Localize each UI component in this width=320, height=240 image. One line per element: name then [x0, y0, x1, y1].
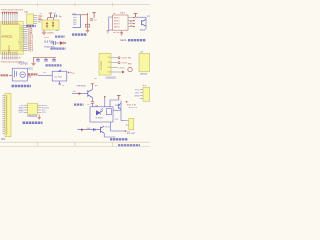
- display connector bracket: [73, 15, 81, 28]
- wire below reset box: [59, 81, 61, 83]
- VCC symbol above crystal: [49, 13, 52, 18]
- reset net label red: [28, 73, 38, 75]
- output header body: [129, 118, 134, 130]
- U1 right side pins: [23, 26, 27, 51]
- LED indicator label blue: [55, 35, 65, 37]
- caption relay circuit blue: [110, 138, 128, 140]
- diode on Q4 base wire: [81, 128, 84, 131]
- resistor network RP1 body: [2, 12, 17, 14]
- crystal circuit body: [42, 20, 59, 30]
- caption start circuit blue: [74, 103, 84, 105]
- svg-text:VCC: VCC: [28, 68, 33, 71]
- keypad right pins: [128, 18, 133, 27]
- diode terminal dot bottom: [125, 130, 127, 132]
- svg-text:P3.6: P3.6: [44, 37, 49, 39]
- U1 top pin stubs: [2, 22, 17, 25]
- wire cap to opto box: [91, 103, 93, 107]
- bottom zone tick 3: [112, 142, 114, 147]
- arrow at pin4: [122, 71, 125, 74]
- driver IC U2 body: [99, 53, 111, 75]
- pin end circle 1: [118, 57, 120, 59]
- LED terminal dot: [64, 42, 66, 44]
- caps caption blue: [46, 64, 62, 66]
- indicator wire left: [51, 42, 54, 44]
- header JP1 body: [5, 93, 11, 137]
- wire reset to switch: [38, 74, 52, 76]
- diode on Q2 base wire: [79, 92, 82, 95]
- U1 right-side pin names: [18, 25, 23, 52]
- svg-text:Uart1-: Uart1-: [120, 39, 127, 42]
- U3 left net labels blue: [19, 105, 24, 114]
- svg-text:XTAL2: XTAL2: [8, 45, 11, 53]
- svg-text:PNP8550: PNP8550: [77, 86, 87, 88]
- crystal symbol left: [46, 22, 48, 28]
- wire top mid of box: [104, 97, 106, 107]
- svg-text:JP1: JP1: [1, 137, 6, 141]
- svg-text:VCC: VCC: [19, 112, 24, 114]
- indicator resistor body: [54, 41, 56, 45]
- RP1 top bar: [2, 11, 18, 13]
- ground below rail: [86, 31, 90, 33]
- small cap below reset box: [59, 84, 61, 85]
- output header pins: [125, 121, 128, 126]
- power socket contact 1: [14, 70, 16, 77]
- top margin strip: [0, 0, 150, 4]
- C5 top leg: [45, 57, 47, 59]
- motor symbol M1: [128, 67, 132, 71]
- Q4 base wire: [78, 129, 101, 131]
- indicator lamp circle: [20, 72, 25, 77]
- transistor Q4: [101, 126, 105, 133]
- U1 bottom pin stubs: [2, 52, 17, 55]
- U3 right net labels blue: [42, 105, 50, 114]
- bottom zone tick 1: [37, 142, 39, 147]
- power indicator label red: [1, 74, 9, 76]
- Q1 vertical wire: [145, 17, 147, 29]
- svg-text:LM016: LM016: [140, 74, 148, 76]
- series resistor R3: [85, 24, 89, 27]
- svg-text:12MHz: 12MHz: [47, 32, 54, 34]
- U5 pin net labels red: [38, 15, 43, 23]
- svg-text:12V: 12V: [115, 119, 119, 121]
- top zone tick 1: [37, 2, 39, 6]
- svg-text:NC: NC: [73, 24, 77, 26]
- top zone tick 3: [112, 2, 114, 6]
- wire crystal right leg: [53, 18, 55, 20]
- ground below crystal: [42, 32, 46, 34]
- svg-text:1234567891011121: 1234567891011121: [2, 24, 21, 26]
- sheet background: [0, 0, 150, 150]
- U3 right pins: [37, 105, 41, 112]
- caption serial port circuit: [23, 122, 43, 125]
- RS232 IC U3 body: [28, 103, 38, 114]
- junction dot Q3: [126, 101, 128, 103]
- svg-text:KEY2: KEY2: [114, 20, 120, 22]
- keypad rows text red: [114, 17, 120, 28]
- photo switch header body: [143, 87, 150, 101]
- capacitor C6: [52, 60, 56, 61]
- U3 left pins: [24, 105, 28, 112]
- VCC for Q1: [134, 13, 138, 17]
- keypad left bus wire: [109, 17, 113, 30]
- svg-text:MAX232: MAX232: [28, 115, 38, 118]
- vertical rail wire: [87, 13, 89, 30]
- svg-text:C2+: C2+: [42, 112, 47, 114]
- sheet border bottom inner line: [0, 141, 150, 143]
- title block text bottom right: [118, 144, 140, 146]
- svg-text:8550: 8550: [140, 30, 146, 32]
- svg-text:P00P01P02P03P04P0: P00P01P02P03P04P0: [1, 10, 24, 12]
- svg-text:VCC: VCC: [70, 72, 75, 74]
- capacitor C3 near crystal: [55, 14, 57, 17]
- wire crystal left leg: [47, 18, 49, 20]
- svg-text:RS: RS: [128, 57, 132, 59]
- capacitor C4: [36, 60, 40, 61]
- U5 caption blue: [26, 25, 36, 27]
- photo header net labels blue: [135, 89, 141, 97]
- bottom wire right: [111, 130, 126, 132]
- svg-text:JDQ 12V: JDQ 12V: [128, 107, 137, 109]
- polarized cap on Q2 emitter: [91, 102, 94, 104]
- sheet border bottom outer line: [0, 146, 150, 148]
- MCU U1 body: [1, 22, 23, 55]
- U2 right pins: [111, 58, 122, 72]
- LCD block U4 body: [139, 53, 150, 71]
- relay vertical wire: [120, 101, 122, 121]
- opto LED symbol: [96, 109, 102, 115]
- svg-text:OUT: OUT: [135, 92, 140, 94]
- svg-text:OUT3: OUT3: [119, 67, 126, 69]
- wire to output header: [121, 120, 125, 122]
- Q2 emitter wire: [91, 98, 93, 102]
- keypad box J2: [113, 15, 128, 30]
- Q4 emitter wire down-right: [104, 133, 115, 137]
- photo header left pins: [140, 90, 143, 99]
- svg-text:AT89C51: AT89C51: [1, 35, 13, 39]
- svg-text:P3.4: P3.4: [28, 51, 33, 53]
- junction dot: [104, 96, 106, 98]
- JP1 pin numbers column: [6, 96, 8, 135]
- VCC above Q2: [91, 84, 94, 87]
- svg-text:TLP521: TLP521: [95, 117, 103, 119]
- power connector box: [12, 68, 27, 81]
- pin end circle 2: [118, 62, 120, 64]
- wire crystal top: [48, 17, 54, 19]
- VCC left of keypad: [106, 31, 109, 34]
- svg-text:NC: NC: [38, 21, 42, 23]
- svg-text:4N25: 4N25: [115, 105, 121, 107]
- transistor Q1: [142, 19, 146, 26]
- C4 top leg: [37, 57, 39, 59]
- LED D1: [60, 42, 63, 45]
- caption MCU minimum system: [12, 85, 32, 88]
- caption uart interface blue: [128, 39, 146, 41]
- Q2 base wire: [72, 93, 87, 95]
- svg-text:KEY1: KEY1: [114, 17, 120, 19]
- svg-text:VCC: VCC: [135, 89, 140, 91]
- opto relay box: [90, 107, 113, 122]
- Q2 collector wire: [91, 87, 93, 90]
- svg-text:KEY: KEY: [121, 13, 126, 15]
- svg-text:GND: GND: [135, 95, 140, 97]
- svg-text:KEY3: KEY3: [114, 23, 120, 25]
- capacitor C5: [44, 60, 48, 61]
- relay wire right: [113, 109, 121, 111]
- power socket contact 2: [15, 71, 17, 76]
- wire bracket to rail: [81, 14, 88, 16]
- wire to LED: [56, 42, 60, 44]
- caps supply wire: [34, 56, 57, 58]
- VCC above box: [117, 95, 121, 100]
- ground under caps: [31, 63, 35, 65]
- wire into power box: [9, 74, 12, 76]
- LED circuit caption blue: [51, 47, 66, 49]
- JP1 left pins: [2, 96, 5, 134]
- opto output rect: [106, 109, 111, 115]
- sheet border top line: [0, 4, 150, 6]
- svg-text:ULN2003: ULN2003: [101, 60, 103, 70]
- caps left drop wire: [33, 57, 35, 63]
- caption display circuit blue: [72, 33, 87, 35]
- VCC symbol top right: [92, 13, 95, 18]
- ground below keypad: [120, 31, 124, 35]
- reset switch box: [52, 71, 67, 81]
- transistor Q3: [119, 103, 121, 109]
- XTAL net labels left of crystal: [38, 13, 42, 21]
- VCC dot right of reset box: [68, 72, 70, 74]
- keypad pin end dots: [133, 17, 134, 27]
- opto box bottom wire down: [110, 122, 112, 131]
- ground below U3: [38, 114, 41, 119]
- svg-text:ULN2003: ULN2003: [106, 76, 117, 79]
- wire below crystal: [43, 30, 45, 32]
- Q1 collector wire: [135, 16, 146, 18]
- wire bus RP1 to U1: [2, 14, 17, 21]
- svg-text:R10 4.7K: R10 4.7K: [127, 105, 137, 107]
- svg-text:KEY4: KEY4: [114, 26, 120, 28]
- sensor IC U5 body: [27, 14, 34, 24]
- wire bus below U1: [2, 54, 17, 60]
- bottom zone tick 2: [74, 142, 76, 147]
- bracket contact rows: [73, 17, 78, 26]
- reset diode above box: [58, 70, 61, 72]
- svg-text:P25 P26: P25 P26: [19, 63, 29, 66]
- svg-text:Q1: Q1: [147, 15, 150, 17]
- U2 pin names red: [108, 57, 112, 74]
- U5 right pins: [34, 16, 38, 24]
- electrolytic cap C7: [90, 19, 93, 20]
- transistor Q2: [88, 89, 93, 97]
- svg-text:2122232425262728: 2122232425262728: [1, 58, 21, 60]
- wire vcc to box: [110, 100, 119, 107]
- net labels at U1 right pins: [28, 26, 33, 53]
- C6 top leg: [53, 57, 55, 59]
- crystal symbol right: [52, 21, 54, 27]
- svg-text:S1 RST: S1 RST: [54, 76, 63, 78]
- capacitor bar on Q4 base wire: [94, 128, 95, 131]
- top zone tick 2: [74, 2, 76, 6]
